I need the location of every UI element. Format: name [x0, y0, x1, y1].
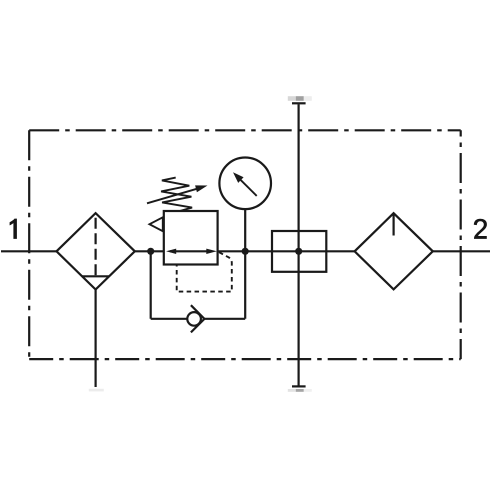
branch vertical line [298, 104, 300, 386]
enclosure dash-dot border left [28, 130, 30, 359]
drain end faint marker [89, 389, 104, 392]
regulator R1 flow path line [170, 250, 212, 252]
enclosure dash-dot border bottom [29, 358, 461, 360]
regulator R1 body [164, 211, 218, 265]
bottom port plug marker (grey) [288, 389, 312, 392]
bypass line bottom right segment [204, 318, 245, 320]
bypass line down from node A [150, 251, 152, 318]
pressure gauge G1 needle arrowhead [233, 172, 244, 183]
lubricator L1 body (diamond) [355, 213, 433, 289]
wire: lubricator L1 to port 2 outlet [432, 250, 490, 252]
top port cap [292, 102, 306, 104]
regulator R1 relief seat triangle [150, 217, 163, 231]
wire: port 1 inlet to filter F1 [1, 250, 57, 252]
top port plug marker (grey) [288, 96, 312, 101]
node B junction (regulator outlet / gauge tap) [242, 248, 249, 255]
regulator R1 right arrowhead [206, 249, 217, 254]
regulator R1 pilot line (dashed) [177, 252, 232, 291]
check valve V1 seat [191, 305, 205, 332]
port label 1 [10, 219, 17, 239]
bypass line up to node B [244, 251, 246, 318]
filter F1 body (diamond) [57, 213, 135, 289]
filter F1 element (dashed centre line) [94, 218, 96, 276]
regulator R1 adjustment arrowhead [195, 185, 207, 192]
regulator R1 left arrowhead [166, 249, 176, 254]
branch block B1 body [272, 231, 326, 272]
pressure gauge G1 needle shaft [240, 179, 257, 196]
filter F1 water separator chord [82, 275, 109, 277]
enclosure dash-dot border right [460, 130, 462, 359]
wire: filter F1 to regulator R1 [134, 250, 164, 252]
bottom port cap [292, 385, 306, 387]
enclosure dash-dot border top [29, 129, 461, 131]
check valve V1 ball [187, 312, 201, 326]
pressure gauge G1 stem [244, 210, 246, 251]
regulator R1 adjustment spring [161, 178, 192, 211]
pressure gauge G1 dial [219, 158, 271, 210]
port label 2 [474, 219, 487, 239]
lubricator L1 drip line [393, 214, 395, 235]
filter F1 condensate drain line [94, 290, 96, 388]
bypass line bottom left segment [151, 318, 188, 320]
wire: regulator R1 through branch block to lubricator L1 [218, 250, 356, 252]
regulator R1 adjustment arrow shaft [147, 188, 199, 203]
node C junction (branch block centre) [295, 248, 302, 255]
node A junction (filter outlet / bypass tap) [147, 248, 154, 255]
